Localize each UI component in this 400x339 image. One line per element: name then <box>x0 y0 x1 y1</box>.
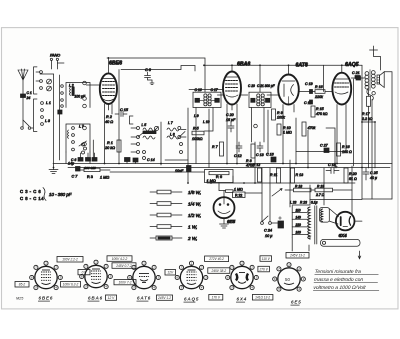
svg-text:1 MΩ: 1 MΩ <box>234 187 243 191</box>
capacitor C13 <box>256 142 264 157</box>
svg-text:6E5: 6E5 <box>227 219 236 224</box>
resistor R16b <box>337 143 341 156</box>
svg-text:6AQ5: 6AQ5 <box>345 62 359 68</box>
svg-text:270 V: 270 V <box>258 268 268 272</box>
svg-text:6BA6: 6BA6 <box>237 62 250 68</box>
svg-text:R 15: R 15 <box>316 107 324 111</box>
svg-text:2: 2 <box>152 266 155 270</box>
tube socket 6BA6 <box>80 260 113 289</box>
svg-text:100V 4.2-2: 100V 4.2-2 <box>112 257 128 261</box>
antenna switch contacts <box>21 127 24 130</box>
wire: plate feed 6AQ5 <box>322 65 324 91</box>
band switch bank 2 <box>34 99 44 132</box>
resistor R16 <box>314 85 332 99</box>
band switch bank 1 <box>34 67 43 94</box>
svg-text:10 μ: 10 μ <box>265 234 273 238</box>
svg-text:R 22: R 22 <box>235 193 242 197</box>
svg-text:140: 140 <box>296 215 302 219</box>
svg-text:2.2 kΩ: 2.2 kΩ <box>361 117 373 121</box>
svg-text:R 16: R 16 <box>315 85 323 89</box>
svg-text:R 1: R 1 <box>107 141 113 145</box>
tube 6BE6 U1 <box>100 73 117 104</box>
speaker LS <box>367 72 392 199</box>
svg-text:10 - 380 pF: 10 - 380 pF <box>49 192 72 197</box>
svg-text:110 V: 110 V <box>262 257 271 261</box>
magic eye 6E5 <box>219 187 262 204</box>
svg-text:2: 2 <box>250 266 253 270</box>
coil L4 box <box>66 124 90 152</box>
wire: R8 to lower bus <box>254 142 256 183</box>
svg-text:C 3 - C 6: C 3 - C 6 <box>20 189 41 194</box>
svg-text:R 17: R 17 <box>362 112 371 116</box>
svg-text:245V 38-2: 245V 38-2 <box>210 269 226 273</box>
wire: 6AQ5 plate to OT <box>351 77 365 79</box>
svg-text:L 9: L 9 <box>194 114 199 118</box>
wire: transformer primary riser <box>309 185 311 205</box>
tube socket 6AT6 <box>128 261 161 290</box>
wire: bottom right link <box>362 198 392 200</box>
resistor R14 <box>302 122 306 136</box>
svg-text:C 18: C 18 <box>328 163 336 167</box>
wire: 6AQ5 screen drop <box>345 105 347 152</box>
wire: osc vertical <box>187 108 189 183</box>
svg-text:51 Ω: 51 Ω <box>349 177 357 181</box>
wire: 6BA6 to IFT2 <box>241 94 248 96</box>
svg-text:50: 50 <box>285 277 290 282</box>
tube 6AQ5 U4 <box>332 73 351 105</box>
svg-text:L 7: L 7 <box>168 121 173 125</box>
svg-text:M25: M25 <box>16 297 24 301</box>
tube socket 6BE6 <box>30 261 63 290</box>
resistor R8 <box>246 144 255 168</box>
wire: heater drop b <box>307 130 309 168</box>
SOCKETS <box>15 253 309 306</box>
potentiometer R6 <box>205 170 234 191</box>
rectifier 6X4 U5 <box>336 212 355 231</box>
antenna <box>18 69 28 97</box>
svg-text:14μ: 14μ <box>68 162 74 166</box>
svg-text:R 20: R 20 <box>349 172 357 176</box>
svg-text:220k: 220k <box>314 95 323 99</box>
svg-text:R 9: R 9 <box>277 111 283 115</box>
svg-text:C 8: C 8 <box>145 68 152 72</box>
svg-text:massa e elettrodo con: massa e elettrodo con <box>314 277 364 283</box>
tube socket 6E5 <box>273 263 306 292</box>
wire: heater run to transformer <box>289 160 291 207</box>
svg-text:C 20: C 20 <box>226 113 234 117</box>
heater wiring right <box>326 128 335 164</box>
wire: 6X4 plate feed <box>351 166 353 215</box>
capacitor C15 <box>115 108 129 117</box>
svg-text:2: 2 <box>54 266 57 270</box>
svg-text:L 1: L 1 <box>46 101 51 105</box>
svg-text:R 6: R 6 <box>216 174 223 179</box>
resistor R1 <box>104 140 121 152</box>
capacitor C1 <box>21 91 34 128</box>
wire: transformer HV riser <box>323 168 325 205</box>
wire: third bus segment <box>110 171 207 173</box>
wire: 6BA6 pin to gnd bus <box>226 104 228 164</box>
svg-text:C 8 - C 14: C 8 - C 14 <box>20 196 44 201</box>
svg-text:40 μ: 40 μ <box>370 176 377 180</box>
IFT pin wires <box>195 108 197 164</box>
node B+ top <box>370 46 381 70</box>
electrolytic C18 <box>326 163 339 174</box>
svg-text:L 5: L 5 <box>142 123 147 127</box>
svg-text:1 MΩ: 1 MΩ <box>100 176 109 180</box>
svg-text:6X4: 6X4 <box>237 297 248 302</box>
svg-text:FANO: FANO <box>50 54 60 58</box>
wire: B+ bottom bus <box>310 199 362 201</box>
svg-text:6AT6: 6AT6 <box>296 62 308 68</box>
svg-text:170 V: 170 V <box>212 296 221 300</box>
svg-text:R 13: R 13 <box>296 173 304 177</box>
wire: IFT2 to 6AT6 <box>267 94 278 96</box>
resistor R18 R19 <box>285 184 352 197</box>
svg-text:160: 160 <box>296 231 302 235</box>
resistor R20 <box>344 168 357 183</box>
svg-text:R 11: R 11 <box>270 173 277 177</box>
mains lead <box>308 245 310 251</box>
svg-text:C 7: C 7 <box>72 175 79 179</box>
svg-text:245V 13-2: 245V 13-2 <box>289 254 305 258</box>
resistor R13 <box>291 168 304 183</box>
svg-text:1/4 W,: 1/4 W, <box>188 202 201 207</box>
oscillator section contacts <box>119 70 186 166</box>
svg-text:245V 1-2: 245V 1-2 <box>157 296 171 300</box>
svg-text:12V: 12V <box>167 271 174 275</box>
coil L2 box <box>61 81 90 108</box>
tube 6BA6 U2 <box>223 72 241 105</box>
capacitor C9 C10 <box>125 158 155 164</box>
wire: 6AT6 pin stub <box>293 105 295 113</box>
IF transformer T2 <box>248 84 276 108</box>
svg-text:R 5: R 5 <box>193 127 199 131</box>
svg-text:100V 2.2-2: 100V 2.2-2 <box>62 258 78 262</box>
capacitor C16b <box>175 166 191 174</box>
svg-text:100k: 100k <box>277 116 285 120</box>
wire: 6AT6 cathode drop <box>282 105 284 164</box>
wire: 6AT6 diode <box>267 110 269 156</box>
resistor R12 <box>258 168 262 182</box>
wire: 6BE6 cathode to gnd bus <box>104 118 106 164</box>
resistor R7 <box>212 142 224 156</box>
wire: heater drop a <box>295 118 297 164</box>
capacitor C20t <box>226 113 236 132</box>
capacitor C12 <box>234 142 242 158</box>
capacitor C23 <box>266 153 276 163</box>
svg-text:C 16: C 16 <box>266 153 274 157</box>
resistor R17 <box>361 96 373 121</box>
svg-text:6E5: 6E5 <box>291 300 302 305</box>
capacitor C4 <box>79 140 93 158</box>
svg-text:141Ω 13-2: 141Ω 13-2 <box>255 296 270 300</box>
svg-text:R 23: R 23 <box>300 201 307 205</box>
svg-text:245V 0.7-2: 245V 0.7-2 <box>115 264 132 268</box>
wire: oscillator top loop <box>121 66 195 72</box>
svg-text:C 21: C 21 <box>352 71 360 75</box>
capacitor C20b <box>304 100 313 105</box>
svg-text:6X4: 6X4 <box>339 233 348 238</box>
wire: B+ drop right <box>361 65 363 199</box>
wire: 6AQ5 cathode drop <box>336 105 338 164</box>
wire: C21 drop <box>353 79 355 166</box>
power transformer T4 <box>290 201 360 252</box>
wire: heater crossbar <box>296 151 346 153</box>
svg-text:6AT6: 6AT6 <box>137 296 151 301</box>
switch S3 lever <box>272 189 282 197</box>
wire: IFT2 feed <box>259 65 261 92</box>
capacitor C27 <box>324 148 329 153</box>
svg-text:L 10: L 10 <box>203 120 210 124</box>
trimmer contacts <box>47 79 52 91</box>
svg-text:2: 2 <box>104 265 107 269</box>
capacitor C19 <box>299 82 315 94</box>
svg-text:12 V: 12 V <box>108 296 115 300</box>
wire: IFT1 to 6BA6 <box>217 94 223 96</box>
svg-text:C 1: C 1 <box>27 91 32 95</box>
wire: top B+ rail <box>205 64 362 66</box>
wire: top AVC rail <box>107 58 205 92</box>
svg-text:24: 24 <box>26 96 31 100</box>
resistor R9 <box>272 109 285 120</box>
svg-text:L 8: L 8 <box>170 133 175 137</box>
svg-text:6BE6: 6BE6 <box>109 61 122 67</box>
svg-text:L 3: L 3 <box>45 119 50 123</box>
capacitor C24 <box>264 217 284 239</box>
capacitor C25 <box>363 168 378 180</box>
svg-text:20 kΩ: 20 kΩ <box>104 146 115 150</box>
svg-text:C 14: C 14 <box>147 158 155 162</box>
svg-text:C 19: C 19 <box>305 82 313 86</box>
resistor R15 <box>311 106 328 117</box>
wire: R17 leads <box>368 89 370 168</box>
resistor R11 <box>270 168 281 183</box>
node FANO <box>50 54 64 69</box>
svg-text:110: 110 <box>296 209 301 213</box>
svg-text:C 20: C 20 <box>248 84 255 88</box>
svg-text:6BA6: 6BA6 <box>88 296 103 301</box>
resistor R5 <box>192 127 204 142</box>
svg-text:L 23: L 23 <box>290 201 297 205</box>
svg-text:1/8 W,: 1/8 W, <box>188 190 201 195</box>
capacitor C21 <box>352 71 360 79</box>
resistor R10 <box>277 124 292 135</box>
svg-text:15 pF: 15 pF <box>226 118 236 122</box>
script note <box>313 269 381 291</box>
svg-text:1 MΩ: 1 MΩ <box>207 179 216 183</box>
svg-text:470k: 470k <box>308 126 316 130</box>
arrow below <box>358 251 361 259</box>
wire: gnd bus <box>53 163 392 165</box>
svg-text:1 MΩ: 1 MΩ <box>283 131 292 135</box>
capacitor C3 <box>58 110 62 114</box>
capacitor C8 <box>145 68 155 85</box>
svg-text:C 18: C 18 <box>304 101 312 105</box>
wire: second bus <box>68 167 390 169</box>
svg-text:220: 220 <box>295 223 302 227</box>
svg-text:40 Ω: 40 Ω <box>105 120 113 124</box>
svg-text:C 12: C 12 <box>234 154 242 158</box>
svg-text:C 16: C 16 <box>195 88 202 92</box>
IF transformer T1 <box>189 88 223 107</box>
svg-text:R 3: R 3 <box>87 175 93 179</box>
legend C3-C6 <box>20 188 72 202</box>
svg-text:C 17: C 17 <box>211 88 218 92</box>
capacitor R4 electrolytic <box>68 162 80 172</box>
svg-text:R 10: R 10 <box>283 126 291 130</box>
svg-text:C 25: C 25 <box>370 171 378 175</box>
wire: left vertical <box>59 75 61 160</box>
svg-text:1 W,: 1 W, <box>188 225 197 230</box>
svg-text:10nF: 10nF <box>175 169 184 173</box>
wire: switch feed <box>269 168 271 222</box>
svg-text:6AQ5: 6AQ5 <box>184 297 199 302</box>
svg-text:C 21 300 pF: C 21 300 pF <box>257 84 276 88</box>
tube socket 6AQ5 <box>175 261 208 290</box>
svg-text:85-2: 85-2 <box>19 283 26 287</box>
svg-text:100V 6.3-2: 100V 6.3-2 <box>63 283 79 287</box>
svg-text:2: 2 <box>297 267 300 271</box>
resistor legend <box>150 190 201 241</box>
ground <box>49 168 58 174</box>
svg-text:6BE6: 6BE6 <box>39 296 54 301</box>
svg-text:C 24: C 24 <box>264 229 272 233</box>
svg-text:100kΩ: 100kΩ <box>192 137 203 141</box>
svg-text:Tensioni misurate fra: Tensioni misurate fra <box>314 269 361 275</box>
svg-text:470 kΩ: 470 kΩ <box>316 112 328 116</box>
svg-text:272V 40-2: 272V 40-2 <box>208 257 224 261</box>
svg-text:R 18: R 18 <box>295 184 302 188</box>
wire: 6AT6 cath <box>208 109 210 168</box>
svg-text:2: 2 <box>200 266 203 270</box>
svg-text:C 27: C 27 <box>320 144 329 148</box>
wire: coil to 6BE6 <box>86 84 100 86</box>
capacitor C21b <box>356 76 361 80</box>
svg-text:C 13: C 13 <box>256 153 264 157</box>
wire: 6BA6 screen drop <box>236 104 238 164</box>
svg-text:0.1μ: 0.1μ <box>311 201 318 205</box>
tube 6AT6 U3 <box>278 75 299 105</box>
svg-text:2 W,: 2 W, <box>187 236 197 241</box>
switch S2 <box>261 168 272 224</box>
resistor R3 <box>72 168 111 179</box>
svg-text:100V 7-2: 100V 7-2 <box>119 281 132 285</box>
tube socket 6X4 <box>226 261 259 290</box>
svg-text:R 19: R 19 <box>317 184 324 188</box>
svg-text:R 2: R 2 <box>106 115 113 119</box>
svg-text:R 8: R 8 <box>246 159 252 163</box>
svg-text:100 Ω: 100 Ω <box>342 150 352 154</box>
wire: lower bus <box>207 182 355 184</box>
svg-text:1/2 W,: 1/2 W, <box>188 213 201 218</box>
wire: fano down <box>53 74 55 168</box>
svg-text:R 12: R 12 <box>253 163 260 167</box>
svg-text:voltmetro a 1000 Ω/Volt: voltmetro a 1000 Ω/Volt <box>313 285 366 291</box>
capacitor C5 C6 blobs <box>66 152 97 170</box>
svg-text:2.7 Ω: 2.7 Ω <box>315 193 325 197</box>
output transformer T3 <box>365 70 375 91</box>
